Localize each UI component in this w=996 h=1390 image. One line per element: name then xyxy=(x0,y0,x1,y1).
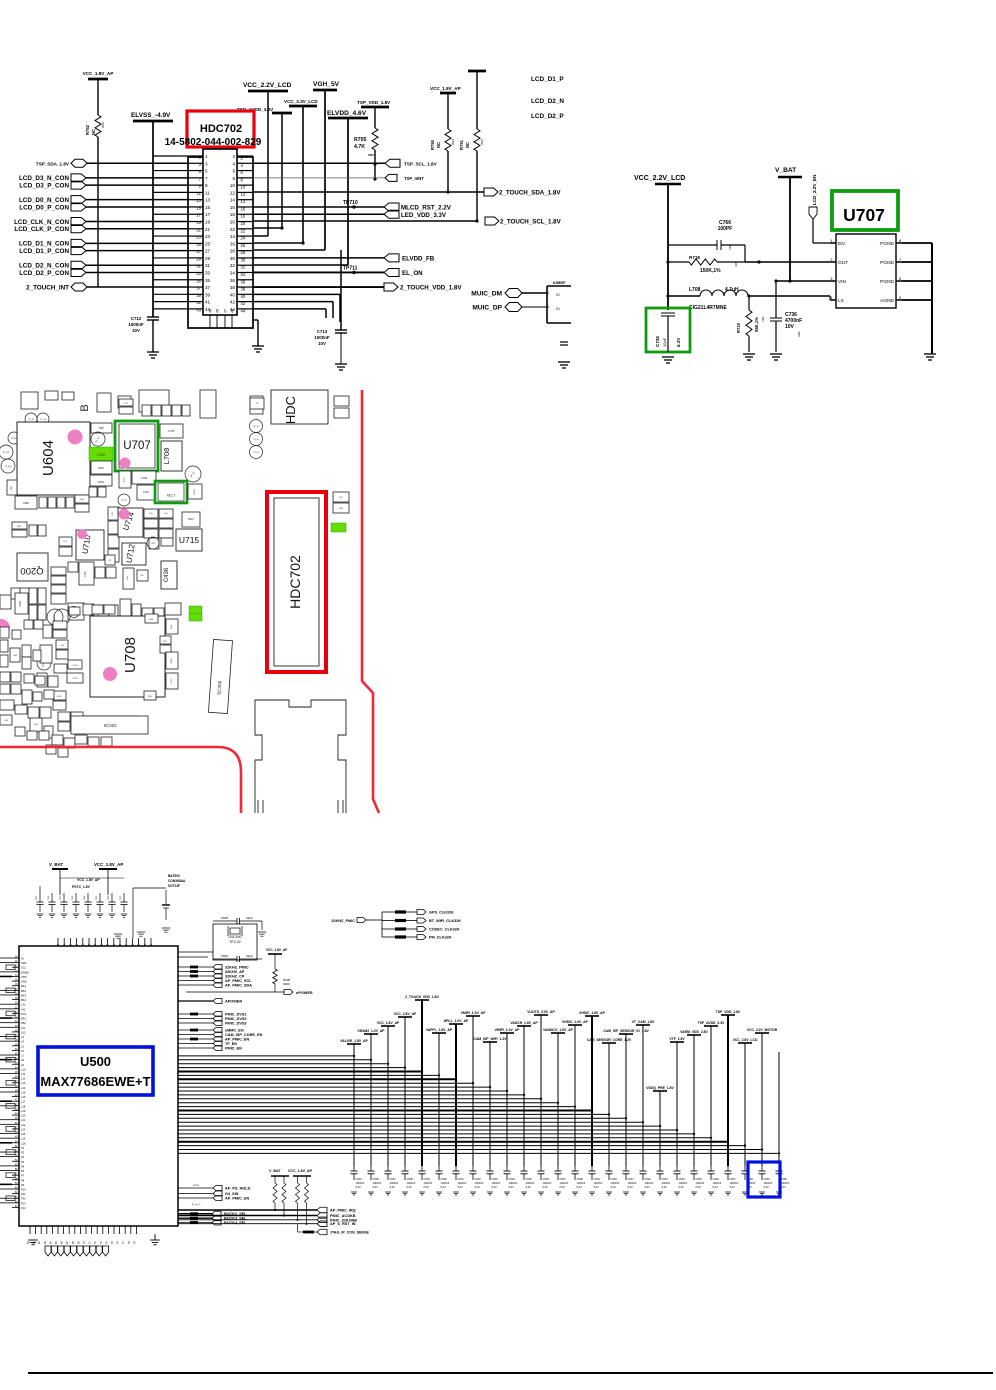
svg-text:R752: R752 xyxy=(85,124,90,135)
power net VCC_2.8V_LCD xyxy=(738,1042,752,1044)
svg-text:GPS_CLK32K: GPS_CLK32K xyxy=(429,911,454,915)
svg-text:LCD_D3_N_CON: LCD_D3_N_CON xyxy=(19,175,69,182)
svg-text:TP_603: TP_603 xyxy=(4,466,12,468)
net flag AP_PMIC_EN xyxy=(178,1038,213,1040)
svg-text:VCC_1.8V_AP: VCC_1.8V_AP xyxy=(430,86,461,91)
wire AP_S_RST_IN xyxy=(178,1223,317,1225)
svg-text:LCD_D2_P_CON: LCD_D2_P_CON xyxy=(19,270,69,277)
svg-text:32: 32 xyxy=(230,263,236,268)
svg-text:VADCH_1.8V_AP: VADCH_1.8V_AP xyxy=(510,1021,538,1025)
svg-text:TP516: TP516 xyxy=(193,1185,200,1187)
connector HDC702 pins 1-44 xyxy=(188,154,253,313)
power net VARM_VDD_2.8V xyxy=(687,1034,701,1036)
ground under C535 xyxy=(521,1192,527,1195)
net flag PMIC_DVS1 xyxy=(178,1013,213,1015)
svg-text:1000nF: 1000nF xyxy=(314,335,329,340)
capacitor C532 xyxy=(472,1166,474,1171)
wire VM1M2_1.2V_AP vertical 2 xyxy=(370,1034,372,1166)
svg-text:PM_CLK32K: PM_CLK32K xyxy=(429,936,452,940)
junction VCC/L708 branch xyxy=(666,294,669,297)
pcb component C735 (green highlight) xyxy=(155,481,187,503)
svg-text:VTF_2.8V: VTF_2.8V xyxy=(669,1037,685,1041)
svg-text:47: 47 xyxy=(224,309,228,313)
svg-text:3: 3 xyxy=(547,305,549,309)
svg-text:C283: C283 xyxy=(19,600,22,606)
ground under C537 xyxy=(555,1192,561,1195)
ground under C540 xyxy=(606,1192,612,1195)
capacitor C547 xyxy=(727,1166,729,1171)
net flag EL_ON xyxy=(384,268,399,276)
net flag PMIC_DVS3 xyxy=(178,1022,213,1024)
junction row 17 xyxy=(625,1117,627,1119)
svg-text:20: 20 xyxy=(230,220,236,225)
svg-text:33: 33 xyxy=(205,270,211,275)
svg-text:39: 39 xyxy=(196,293,201,298)
capacitor C523 xyxy=(353,1166,355,1171)
wire LCD_D2_P_CON to connector xyxy=(86,271,188,273)
svg-text:C549: C549 xyxy=(764,1177,771,1181)
wire U500 output row 12 xyxy=(178,1098,541,1100)
wire VCC_2.8V_AP vertical 4 xyxy=(404,1017,406,1166)
wire VUOTG_3.0V_AP vertical 12 xyxy=(540,1015,542,1166)
connector HDC702 body xyxy=(203,149,237,315)
svg-text:21: 21 xyxy=(196,227,201,232)
wire CAM_ISP_WIFI_1.2V vertical 9 xyxy=(489,1042,491,1166)
pcb connector footprint outline xyxy=(255,700,346,813)
svg-text:0603: 0603 xyxy=(480,139,484,145)
power net TSP_AVDD_3.3V xyxy=(704,1025,718,1027)
svg-text:19: 19 xyxy=(196,220,201,225)
svg-text:390K: 390K xyxy=(283,982,290,986)
svg-text:EL_ON: EL_ON xyxy=(402,270,423,277)
capacitor C527 xyxy=(387,1166,389,1171)
svg-text:41: 41 xyxy=(196,300,201,305)
junction row 26 xyxy=(778,1152,780,1154)
wire U500 output row 9 xyxy=(178,1086,490,1088)
svg-text:R5D: R5D xyxy=(148,696,153,698)
svg-text:TP711: TP711 xyxy=(343,265,358,271)
wire 2_TOUCH_INT to connector xyxy=(87,286,188,288)
ground top cluster b xyxy=(137,932,145,936)
net flag CAM_ISP_CORE_EN xyxy=(178,1034,213,1036)
capacitor C540 xyxy=(608,1166,610,1171)
pcb component C740 (green highlight) xyxy=(89,447,113,461)
wire VARM_VDD_2.8V vertical 21 xyxy=(693,1035,695,1166)
svg-text:38: 38 xyxy=(230,285,236,290)
pullup resistor RP1 xyxy=(273,1183,277,1203)
svg-text:U500: U500 xyxy=(80,1054,111,1069)
wire U500 output row 18 xyxy=(178,1121,643,1123)
testpoint TP711 xyxy=(352,271,355,274)
svg-text:AP_PS_HOLD: AP_PS_HOLD xyxy=(225,1187,251,1191)
svg-text:L16: L16 xyxy=(21,1095,26,1099)
svg-text:VARM_VDD_2.8V: VARM_VDD_2.8V xyxy=(680,1030,708,1034)
net flag MUIC_DM xyxy=(505,289,522,298)
decoupling caps top cluster xyxy=(36,878,128,917)
svg-text:TSP_VDD_1.8V: TSP_VDD_1.8V xyxy=(357,100,391,105)
svg-text:4: 4 xyxy=(232,161,235,166)
svg-text:LCD_D2_P: LCD_D2_P xyxy=(531,113,564,120)
wire VCC_1.8V_AP rail down xyxy=(97,79,99,115)
svg-text:37: 37 xyxy=(205,285,211,290)
svg-text:WB: WB xyxy=(11,486,13,490)
svg-text:VCC_1.8V_AP: VCC_1.8V_AP xyxy=(77,878,100,882)
connector HDC702 mounting pins 45-48 xyxy=(209,309,235,328)
svg-text:1000nF: 1000nF xyxy=(373,1181,382,1185)
power net VT_CAM_1.8V xyxy=(636,1024,650,1026)
pcb component HDC702 (red highlight) xyxy=(267,492,326,672)
pcb pink via on U710 xyxy=(77,529,87,539)
svg-text:22: 22 xyxy=(230,227,236,232)
svg-text:6.3V: 6.3V xyxy=(543,1185,549,1189)
net flag nPOWER xyxy=(284,990,293,995)
net flag APOWER xyxy=(178,1000,213,1002)
wire LCD_D1_N_CON to connector xyxy=(86,242,188,244)
svg-text:24: 24 xyxy=(230,234,236,239)
pcb testpoint circle right xyxy=(185,466,201,482)
svg-text:AGND: AGND xyxy=(880,298,894,304)
svg-text:41: 41 xyxy=(205,300,211,305)
svg-text:32KHZ_CP: 32KHZ_CP xyxy=(225,975,245,979)
svg-text:14: 14 xyxy=(230,198,236,203)
wire LCD_CLK_N_CON to connector xyxy=(86,221,188,223)
svg-text:LCD_CLK_P_CON: LCD_CLK_P_CON xyxy=(14,226,69,233)
svg-text:L22: L22 xyxy=(21,1123,26,1127)
svg-text:CONX68AA: CONX68AA xyxy=(168,879,186,883)
pcb component C436 xyxy=(161,561,177,589)
wire U500 output row 8 xyxy=(178,1082,473,1084)
pcb pink via left edge xyxy=(0,619,10,637)
wire VCC_3.0V_MOTOR vertical 25 xyxy=(761,1033,763,1166)
svg-text:PMIC_DVS2: PMIC_DVS2 xyxy=(225,1017,247,1021)
pcb boxes left of U710 xyxy=(59,537,72,556)
svg-text:P12: P12 xyxy=(21,1197,26,1201)
wire rail vertical 26 xyxy=(778,1052,780,1166)
pcb row below U604 xyxy=(15,495,89,512)
svg-text:1608: 1608 xyxy=(798,331,801,337)
pcb footprint inner ticks xyxy=(257,800,259,813)
svg-text:IN: IN xyxy=(21,957,24,961)
wire U500 output row 26 xyxy=(178,1152,779,1154)
svg-text:7: 7 xyxy=(205,176,208,181)
net flag LCD_D2_N_CON xyxy=(71,261,86,269)
svg-text:L11: L11 xyxy=(21,1072,26,1076)
svg-text:6.3V: 6.3V xyxy=(764,1185,770,1189)
wire LCD_D1_P_CON to connector xyxy=(86,250,188,252)
svg-text:C544: C544 xyxy=(679,1177,686,1181)
svg-text:16: 16 xyxy=(241,206,246,211)
wire LED_VDD_3.3V xyxy=(253,213,384,215)
svg-text:TP_60: TP_60 xyxy=(28,419,35,421)
ground under C532 xyxy=(470,1192,476,1195)
junction row 4 xyxy=(404,1066,406,1068)
net flag CODEC_CLK32K xyxy=(417,927,426,932)
pcb pink via on U708 xyxy=(103,667,117,681)
svg-text:6.3V: 6.3V xyxy=(628,1185,634,1189)
svg-text:C541: C541 xyxy=(628,1177,635,1181)
wire LCD_D0_P_CON to connector xyxy=(86,206,188,208)
svg-text:2_TOUCH_VDD_1.8V: 2_TOUCH_VDD_1.8V xyxy=(400,285,462,292)
svg-text:B: B xyxy=(79,404,91,411)
svg-text:P7: P7 xyxy=(21,1174,25,1178)
svg-text:VCC_2.2V_LCD: VCC_2.2V_LCD xyxy=(634,175,685,182)
svg-text:6.3V: 6.3V xyxy=(356,1185,362,1189)
wire rail to R751 xyxy=(476,71,478,129)
resistor to CODEC_CLK32K xyxy=(382,928,395,930)
svg-text:V_BAT: V_BAT xyxy=(775,167,796,174)
wire VAPFL_1.8V_AP vertical 6 xyxy=(438,1033,440,1166)
svg-text:1000nF: 1000nF xyxy=(390,1181,399,1185)
svg-text:LCD_2.2V_EN: LCD_2.2V_EN xyxy=(812,174,817,205)
pcb components right of U604 column xyxy=(91,423,112,446)
svg-text:HDC702: HDC702 xyxy=(287,555,303,609)
wire BUCK2_SEL xyxy=(178,1213,212,1215)
wire U500 output row 22 xyxy=(178,1137,711,1139)
svg-text:LCD_D1_N_CON: LCD_D1_N_CON xyxy=(19,241,69,248)
power rail tall right xyxy=(468,70,486,73)
capacitor C541 xyxy=(625,1166,627,1171)
svg-text:U707: U707 xyxy=(123,440,151,452)
svg-text:48: 48 xyxy=(231,309,235,313)
net flag 32KHZ_PMIC xyxy=(178,966,213,968)
svg-text:U708: U708 xyxy=(122,637,139,673)
svg-text:44: 44 xyxy=(241,308,246,313)
svg-text:8: 8 xyxy=(232,176,235,181)
ground under C533 xyxy=(487,1192,493,1195)
svg-text:ELVDD_4.6V: ELVDD_4.6V xyxy=(327,110,367,117)
svg-text:C540: C540 xyxy=(611,1177,618,1181)
svg-text:VGH_5V: VGH_5V xyxy=(313,81,340,88)
pcb boxes below U708 xyxy=(30,712,138,738)
svg-text:37: 37 xyxy=(196,286,201,291)
svg-text:MM: MM xyxy=(80,499,84,501)
svg-text:BK4: BK4 xyxy=(21,998,26,1002)
power rail VCC_1.8V_AP (top left) xyxy=(88,78,108,81)
ground top cluster a xyxy=(114,934,122,938)
svg-text:10V: 10V xyxy=(318,341,326,346)
svg-text:APOWER: APOWER xyxy=(225,1000,242,1004)
power net VMIPI_1.0V_AP xyxy=(466,1015,480,1017)
wire ELVDD_FB xyxy=(253,257,384,259)
svg-text:PMIC_EN: PMIC_EN xyxy=(225,1047,242,1051)
svg-text:G4_SW: G4_SW xyxy=(225,1192,239,1196)
wire VCC rail to R750 xyxy=(447,93,449,129)
svg-text:3: 3 xyxy=(205,161,208,166)
capacitor C736 4700nF 10V xyxy=(775,281,777,318)
svg-text:34: 34 xyxy=(241,272,246,277)
svg-text:LX1: LX1 xyxy=(21,1003,26,1007)
wire LCD_CLK_P_CON to connector xyxy=(86,228,188,230)
svg-text:10: 10 xyxy=(241,185,246,190)
svg-text:TRM: TRM xyxy=(98,427,103,430)
svg-text:U715: U715 xyxy=(179,535,200,545)
capacitor C735 (green box) xyxy=(646,308,690,352)
svg-text:0603: 0603 xyxy=(451,139,455,145)
power rail VGH_5V xyxy=(313,89,337,92)
svg-text:C40L: C40L xyxy=(84,570,87,576)
wire BUCK3_SEL xyxy=(178,1217,212,1219)
svg-text:C535: C535 xyxy=(526,1177,533,1181)
power net VUOTG_3.0V_AP xyxy=(534,1014,548,1016)
wire G4_SW xyxy=(178,1193,213,1195)
svg-text:VMIPI_1.0V_AP: VMIPI_1.0V_AP xyxy=(461,1011,486,1015)
pcb component L708 xyxy=(161,441,182,471)
junction row 18 xyxy=(642,1121,644,1123)
resistor R750 (NC) xyxy=(445,129,451,151)
pullup resistor RP2 xyxy=(282,1183,286,1203)
pcb green pair highlight xyxy=(189,606,202,621)
junction row 24 xyxy=(744,1144,746,1146)
wire 32KHZ_PMIC to branches xyxy=(366,919,382,921)
power net VAPFL_1.8V_AP xyxy=(432,1032,446,1034)
pcb testpoint TP711 circle xyxy=(118,494,130,506)
capacitor C766 100PF xyxy=(668,244,717,246)
net flag TSP_nINT xyxy=(385,174,397,181)
net flag PMIC_32KONB xyxy=(317,1217,327,1223)
power rail VCC_3.3V_LCD xyxy=(289,105,317,108)
svg-text:nPOWER: nPOWER xyxy=(296,991,313,995)
svg-text:42: 42 xyxy=(230,300,236,305)
junction row 20 xyxy=(676,1129,678,1131)
svg-text:39: 39 xyxy=(205,292,211,297)
svg-text:P9: P9 xyxy=(21,1183,25,1187)
pcb testpoint circles bottom left xyxy=(37,609,70,670)
svg-text:6.3V: 6.3V xyxy=(696,1185,702,1189)
svg-text:27: 27 xyxy=(205,249,211,254)
svg-text:38: 38 xyxy=(241,287,246,292)
resistor R752 (NC) xyxy=(95,115,101,137)
net flag MLCD_RST_2.2V xyxy=(384,203,399,211)
svg-text:L708: L708 xyxy=(162,448,171,465)
svg-text:NC: NC xyxy=(465,142,470,148)
pcb pink via on U604 xyxy=(68,430,83,445)
wire HPLL_1.0V_AP vertical 7 xyxy=(455,1024,457,1166)
svg-text:25: 25 xyxy=(205,241,211,246)
svg-text:L20: L20 xyxy=(21,1114,26,1118)
svg-text:PGND: PGND xyxy=(880,279,894,285)
net flag LCD_D3_N_CON xyxy=(71,174,86,182)
wire U500 output row 21 xyxy=(178,1133,694,1135)
svg-text:L13: L13 xyxy=(21,1081,26,1085)
pcb red boundary right xyxy=(362,390,379,813)
ground under C736 xyxy=(770,354,782,360)
power rail VCC_2.2V_LCD xyxy=(248,90,288,93)
wire 2_TOUCH_SDA_1.8V xyxy=(253,191,484,193)
svg-text:34: 34 xyxy=(230,270,236,275)
wire AP_PMIC_IRQ xyxy=(178,1209,317,1211)
svg-text:LCD_D0_N_CON: LCD_D0_N_CON xyxy=(19,197,69,204)
junction row 23 xyxy=(727,1141,729,1143)
svg-text:6.3V: 6.3V xyxy=(611,1185,617,1189)
svg-text:1000nF: 1000nF xyxy=(509,1181,518,1185)
svg-text:10V: 10V xyxy=(132,328,140,333)
svg-text:VDD: VDD xyxy=(21,975,27,979)
svg-text:MAX77686EWE+T: MAX77686EWE+T xyxy=(40,1074,150,1089)
ground under C528 xyxy=(402,1192,408,1195)
svg-text:6.3V: 6.3V xyxy=(492,1185,498,1189)
svg-text:TR_08: TR_08 xyxy=(253,452,258,454)
svg-text:33: 33 xyxy=(196,271,201,276)
wire VCC_1.8V_AP down xyxy=(107,869,109,895)
svg-text:V_BAT: V_BAT xyxy=(49,862,63,867)
wire U500 output row 11 xyxy=(178,1094,524,1096)
svg-text:36: 36 xyxy=(241,279,246,284)
capacitor C525 xyxy=(370,1166,372,1171)
ground under C523 xyxy=(351,1192,357,1195)
blue highlight box around C548/C549 xyxy=(748,1162,780,1197)
svg-text:31: 31 xyxy=(205,263,211,268)
junction row 1 xyxy=(353,1055,355,1057)
wire VCC_3.3V_LCD down to pin26 xyxy=(302,106,304,243)
svg-text:R751: R751 xyxy=(459,139,464,150)
power net VTF_2.8V xyxy=(670,1041,684,1043)
power net VHSIC_1.0V_AP xyxy=(568,1024,582,1026)
wire VT_CAM_1.8V vertical 18 xyxy=(642,1025,644,1166)
svg-text:24: 24 xyxy=(241,236,246,241)
wire U500 output row 1 xyxy=(178,1055,354,1057)
svg-text:10: 10 xyxy=(230,183,236,188)
capacitor C535 xyxy=(523,1166,525,1171)
wire U500 output row 19 xyxy=(178,1125,660,1127)
wire C712 to ground xyxy=(152,320,154,352)
wire U500 output row 20 xyxy=(178,1129,677,1131)
svg-text:P13: P13 xyxy=(21,1201,26,1205)
svg-text:TSP_SCL_1.8V: TSP_SCL_1.8V xyxy=(404,161,438,166)
svg-text:TSP_nINT: TSP_nINT xyxy=(404,176,424,181)
svg-text:VL1: VL1 xyxy=(21,1026,26,1030)
svg-text:P14: P14 xyxy=(21,1206,26,1210)
svg-text:VAPFL_1.8V_AP: VAPFL_1.8V_AP xyxy=(426,1028,453,1032)
ground under C549 xyxy=(759,1192,765,1195)
svg-text:R718: R718 xyxy=(689,255,700,260)
svg-text:6.3V: 6.3V xyxy=(713,1185,719,1189)
svg-text:TSP_SDA_1.8V: TSP_SDA_1.8V xyxy=(36,162,70,167)
pcb pink via on U707 xyxy=(120,458,131,469)
svg-text:C525: C525 xyxy=(373,1177,380,1181)
capacitor C531 xyxy=(455,1166,457,1171)
wire 2_TOUCH_VDD_1.8V xyxy=(253,286,384,288)
capacitor C712 xyxy=(147,317,159,320)
svg-text:TFX-02: TFX-02 xyxy=(229,940,240,944)
ground under C541 xyxy=(623,1192,629,1195)
wire TSP_nINT xyxy=(253,177,385,179)
power net TSP_VDD_1.8V xyxy=(721,1014,735,1016)
svg-text:10V: 10V xyxy=(785,324,795,330)
wire VADCH_1.8V_AP vertical 11 xyxy=(523,1026,525,1166)
junction row 19 xyxy=(659,1125,661,1127)
pcb boxes above U708 xyxy=(69,605,115,615)
svg-text:TP710: TP710 xyxy=(343,200,358,206)
svg-text:42: 42 xyxy=(241,301,246,306)
pullup resistor RP4 xyxy=(305,1183,309,1203)
pcb boxes under U710/U712 xyxy=(68,562,148,589)
svg-text:NC: NC xyxy=(436,142,441,148)
junction row 8 xyxy=(472,1082,474,1084)
wire JTAG_IP_CON_SENSE xyxy=(298,1231,304,1233)
svg-text:L10: L10 xyxy=(21,1067,26,1071)
wire U500 output row 10 xyxy=(178,1090,507,1092)
svg-text:PMIC_DVS3: PMIC_DVS3 xyxy=(225,1022,247,1026)
svg-text:VALIVE_1.8V_AP: VALIVE_1.8V_AP xyxy=(340,1039,368,1043)
pcb component U715 xyxy=(176,529,202,551)
power net CAM_ISP_WIFI_1.2V xyxy=(483,1041,497,1043)
power net VMIPI_1.0V_AP xyxy=(500,1032,514,1034)
svg-text:46: 46 xyxy=(216,309,220,313)
svg-text:20: 20 xyxy=(241,221,246,226)
svg-text:27: 27 xyxy=(196,249,201,254)
regulator U707 pins xyxy=(830,238,902,304)
net flag AP_S_RST_IN xyxy=(317,1221,327,1227)
